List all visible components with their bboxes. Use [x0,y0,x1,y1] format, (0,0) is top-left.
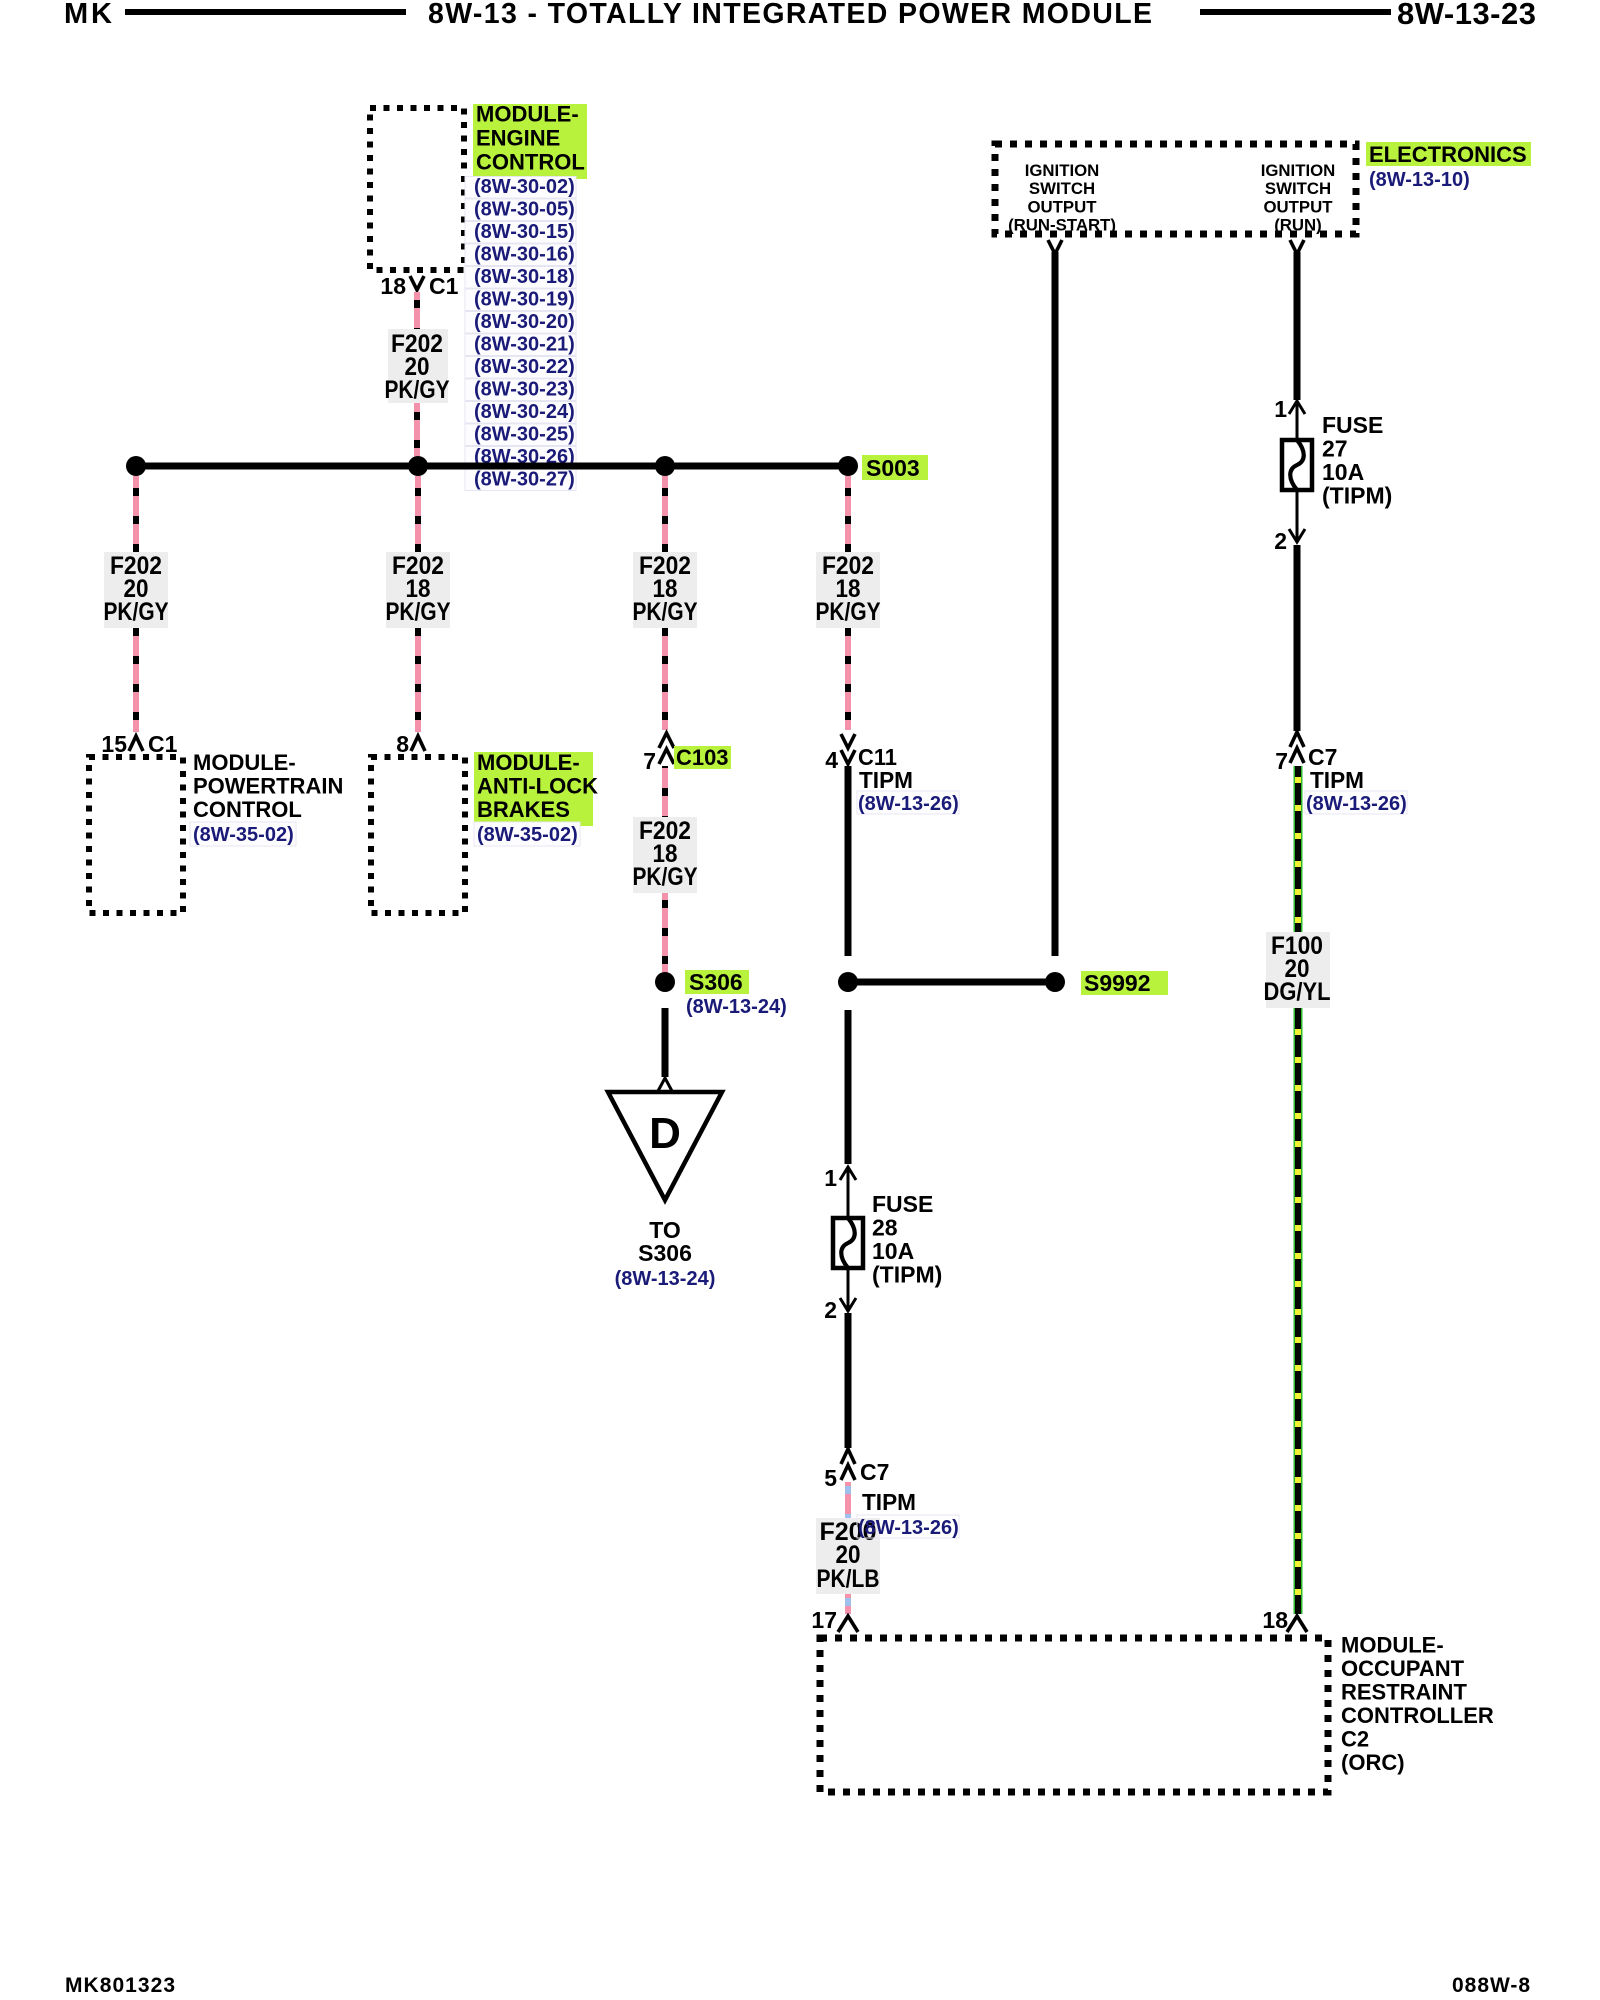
svg-text:28: 28 [872,1215,898,1241]
svg-text:(8W-30-21): (8W-30-21) [474,334,575,356]
wire run-start to S9992 [1052,252,1059,956]
wire label F202 18 PK/GY [633,552,698,628]
svg-text:TIPM: TIPM [862,1489,916,1515]
bus wire S003 [136,463,848,470]
svg-text:(8W-30-24): (8W-30-24) [474,401,575,423]
svg-text:C2: C2 [1341,1727,1369,1752]
fuse 28 lead [847,1168,850,1310]
wire to off-page symbol [662,1008,669,1077]
connector C7 reference box [1305,791,1407,814]
fuse 28 pin 2 arrow [840,1298,856,1311]
junction dot S003 [838,456,858,476]
ignition switch output run-start label [1008,161,1116,235]
fuse 27 pin 1 arrow [1289,401,1305,414]
wire label F100 20 DG/YL [1264,932,1331,1008]
splice bus S9992 [848,979,1055,986]
run-start output chevron [1048,240,1062,254]
svg-text:(8W-13-24): (8W-13-24) [615,1268,716,1290]
svg-text:(8W-13-10): (8W-13-10) [1369,169,1470,191]
connector chevron pin 18 C1 [410,276,424,290]
wire F202 20 PK/GY (engine branch, pink with black dashes) [414,292,420,463]
svg-text:5: 5 [824,1465,837,1491]
svg-text:CONTROL: CONTROL [193,797,302,822]
wire F202 18 PK/GY (branch 4) [845,476,851,730]
svg-text:CONTROLLER: CONTROLLER [1341,1703,1494,1728]
svg-text:15: 15 [101,731,127,757]
svg-text:(TIPM): (TIPM) [872,1262,942,1288]
svg-text:MODULE-: MODULE- [476,102,579,127]
svg-text:(RUN): (RUN) [1274,216,1322,235]
svg-text:RESTRAINT: RESTRAINT [1341,1680,1467,1705]
junction dot S9992 [1045,972,1065,992]
module occupant restraint controller box [820,1638,1328,1792]
svg-text:(8W-13-26): (8W-13-26) [858,1517,959,1539]
connector chevron pin 17 [838,1616,858,1632]
svg-text:7: 7 [1275,748,1288,774]
junction dot [408,456,428,476]
svg-text:(8W-35-02): (8W-35-02) [477,824,578,846]
svg-text:C1: C1 [429,273,459,299]
module anti-lock brakes reference box [474,822,580,846]
svg-text:ELECTRONICS: ELECTRONICS [1369,142,1527,167]
wire label F200 20 PK/LB [816,1518,880,1594]
wire F200 20 PK/LB (pink with light blue dashes) [845,1482,851,1614]
svg-text:MK801323: MK801323 [65,1974,175,1997]
svg-text:(8W-35-02): (8W-35-02) [193,824,294,846]
run output chevron [1290,240,1304,254]
svg-text:7: 7 [643,748,656,774]
splice label S9992 [1081,971,1168,995]
module engine control box [370,108,464,270]
header right rule [1200,9,1391,15]
svg-text:C103: C103 [676,745,729,770]
module engine control reference boxes [465,177,576,491]
wire fuse 27 to C7 [1294,545,1301,731]
svg-text:TIPM: TIPM [1310,767,1364,793]
chevron into off-page symbol [658,1078,672,1091]
wire fuse 28 to C7 [845,1313,852,1448]
module anti-lock brakes label highlight [474,752,593,826]
connector C7 reference box [857,1515,959,1538]
svg-text:(RUN-START): (RUN-START) [1008,216,1116,235]
svg-text:MODULE-: MODULE- [477,750,580,775]
svg-text:(8W-30-05): (8W-30-05) [474,199,575,221]
svg-text:(8W-30-20): (8W-30-20) [474,311,575,333]
svg-text:8W-13-23: 8W-13-23 [1397,0,1536,31]
svg-text:(8W-30-19): (8W-30-19) [474,289,575,311]
svg-text:8: 8 [396,731,409,757]
svg-text:(8W-13-26): (8W-13-26) [1306,793,1407,815]
wire label F202 18 PK/GY [633,817,698,893]
module powertrain control box [89,757,183,913]
svg-text:DG/YL: DG/YL [1264,978,1331,1006]
wire label F202 18 PK/GY [816,552,881,628]
svg-text:POWERTRAIN: POWERTRAIN [193,774,343,799]
svg-text:PK/GY: PK/GY [633,863,698,891]
fuse 27 lead [1296,402,1299,542]
svg-text:OUTPUT: OUTPUT [1264,197,1334,216]
svg-text:PK/GY: PK/GY [386,598,451,626]
module powertrain control reference box [190,822,296,846]
wire S9992 to fuse 28 [845,1010,852,1164]
wire label F202 18 PK/GY [386,552,451,628]
svg-text:S306: S306 [638,1240,692,1266]
connector chevron pin 8 [411,736,425,751]
wire F100 20 DG/YL (dark green with yellow tracer) [1294,766,1303,1614]
svg-text:(ORC): (ORC) [1341,1750,1405,1775]
svg-text:OUTPUT: OUTPUT [1028,197,1098,216]
svg-text:D: D [649,1109,681,1158]
svg-text:(TIPM): (TIPM) [1322,483,1392,509]
fuse 28 element squiggle [841,1218,855,1268]
svg-text:S9992: S9992 [1084,970,1151,996]
wire from C11 to S9992 [845,766,852,956]
svg-text:(8W-30-25): (8W-30-25) [474,424,575,446]
ignition switch output run label [1261,161,1336,235]
ignition switch box [995,144,1356,234]
connector chevron pin 18 [1287,1616,1307,1632]
svg-text:2: 2 [824,1297,837,1323]
junction dot [838,972,858,992]
connector C7 chevrons (left) [841,1449,855,1480]
junction dot [126,456,146,476]
svg-text:FUSE: FUSE [872,1191,933,1217]
svg-text:18: 18 [1262,1607,1288,1633]
svg-text:(8W-30-15): (8W-30-15) [474,221,575,243]
svg-text:1: 1 [1274,396,1287,422]
svg-text:(8W-30-16): (8W-30-16) [474,244,575,266]
svg-text:IGNITION: IGNITION [1025,161,1100,180]
module engine control references [474,176,575,491]
svg-text:MODULE-: MODULE- [193,750,296,775]
svg-text:S003: S003 [866,455,920,481]
svg-text:2: 2 [1274,528,1287,554]
svg-text:ENGINE: ENGINE [476,126,560,151]
svg-text:PK/LB: PK/LB [817,1565,880,1593]
header left rule [125,9,406,15]
connector chevron pin 15 C1 [129,736,143,751]
svg-text:(8W-30-22): (8W-30-22) [474,356,575,378]
svg-text:BRAKES: BRAKES [477,797,570,822]
svg-text:(8W-30-23): (8W-30-23) [474,379,575,401]
splice label S003 [862,455,928,480]
fuse 27 pin 2 arrow [1289,529,1305,542]
wire F202 18 PK/GY (branch 3 lower) [662,766,668,974]
svg-text:SWITCH: SWITCH [1029,179,1095,198]
wire F202 18 PK/GY (branch 2) [415,476,421,732]
svg-text:10A: 10A [1322,459,1364,485]
module engine control label highlight [473,104,587,179]
fuse 27 element squiggle [1290,440,1304,490]
svg-text:4: 4 [825,747,838,773]
svg-text:FUSE: FUSE [1322,412,1383,438]
wire F202 18 PK/GY (branch 3 upper) [662,476,668,730]
wire F202 20 PK/GY (branch 1) [133,476,139,732]
junction dot [655,456,675,476]
svg-text:8W-13 - TOTALLY INTEGRATED POW: 8W-13 - TOTALLY INTEGRATED POWER MODULE [428,0,1152,30]
connector C103 chevrons [659,733,674,764]
svg-text:10A: 10A [872,1238,914,1264]
svg-text:(8W-30-18): (8W-30-18) [474,266,575,288]
fuse 28 pin 1 arrow [840,1167,856,1180]
svg-text:18: 18 [380,273,406,299]
electronics label highlight [1366,142,1531,166]
svg-text:088W-8: 088W-8 [1452,1974,1530,1997]
svg-text:PK/GY: PK/GY [816,598,881,626]
svg-text:1: 1 [824,1165,837,1191]
svg-text:OCCUPANT: OCCUPANT [1341,1656,1465,1681]
fuse 27 body [1282,440,1312,490]
svg-text:(8W-13-26): (8W-13-26) [858,793,959,815]
svg-text:S306: S306 [689,969,743,995]
off-page triangle D [608,1092,722,1200]
wire label F202 20 PK/GY [104,552,169,628]
svg-text:(8W-30-02): (8W-30-02) [474,176,575,198]
svg-text:(8W-13-24): (8W-13-24) [686,996,787,1018]
connector C103 label highlight [674,746,731,769]
svg-text:PK/GY: PK/GY [385,376,450,404]
svg-text:(8W-30-27): (8W-30-27) [474,469,575,491]
svg-text:PK/GY: PK/GY [633,598,698,626]
svg-text:SWITCH: SWITCH [1265,179,1331,198]
svg-text:ANTI-LOCK: ANTI-LOCK [477,774,598,799]
module anti-lock brakes box [371,757,465,913]
svg-text:PK/GY: PK/GY [104,598,169,626]
connector C11 reference box [857,791,959,814]
svg-text:17: 17 [811,1607,837,1633]
svg-text:C7: C7 [860,1459,889,1485]
svg-text:IGNITION: IGNITION [1261,161,1336,180]
connector C7 chevrons (right) [1290,732,1304,763]
splice dot S306 [655,972,675,992]
fuse 28 body [833,1218,863,1268]
svg-text:C1: C1 [148,731,178,757]
svg-text:MK: MK [64,0,112,30]
svg-text:27: 27 [1322,436,1348,462]
splice label S306 [685,970,749,994]
connector C11 chevrons [841,734,855,764]
wire label F202 20 PK/GY [385,329,450,404]
svg-text:CONTROL: CONTROL [476,150,585,175]
svg-text:TIPM: TIPM [859,767,913,793]
svg-text:MODULE-: MODULE- [1341,1633,1444,1658]
wire run to fuse 27 [1294,252,1301,400]
